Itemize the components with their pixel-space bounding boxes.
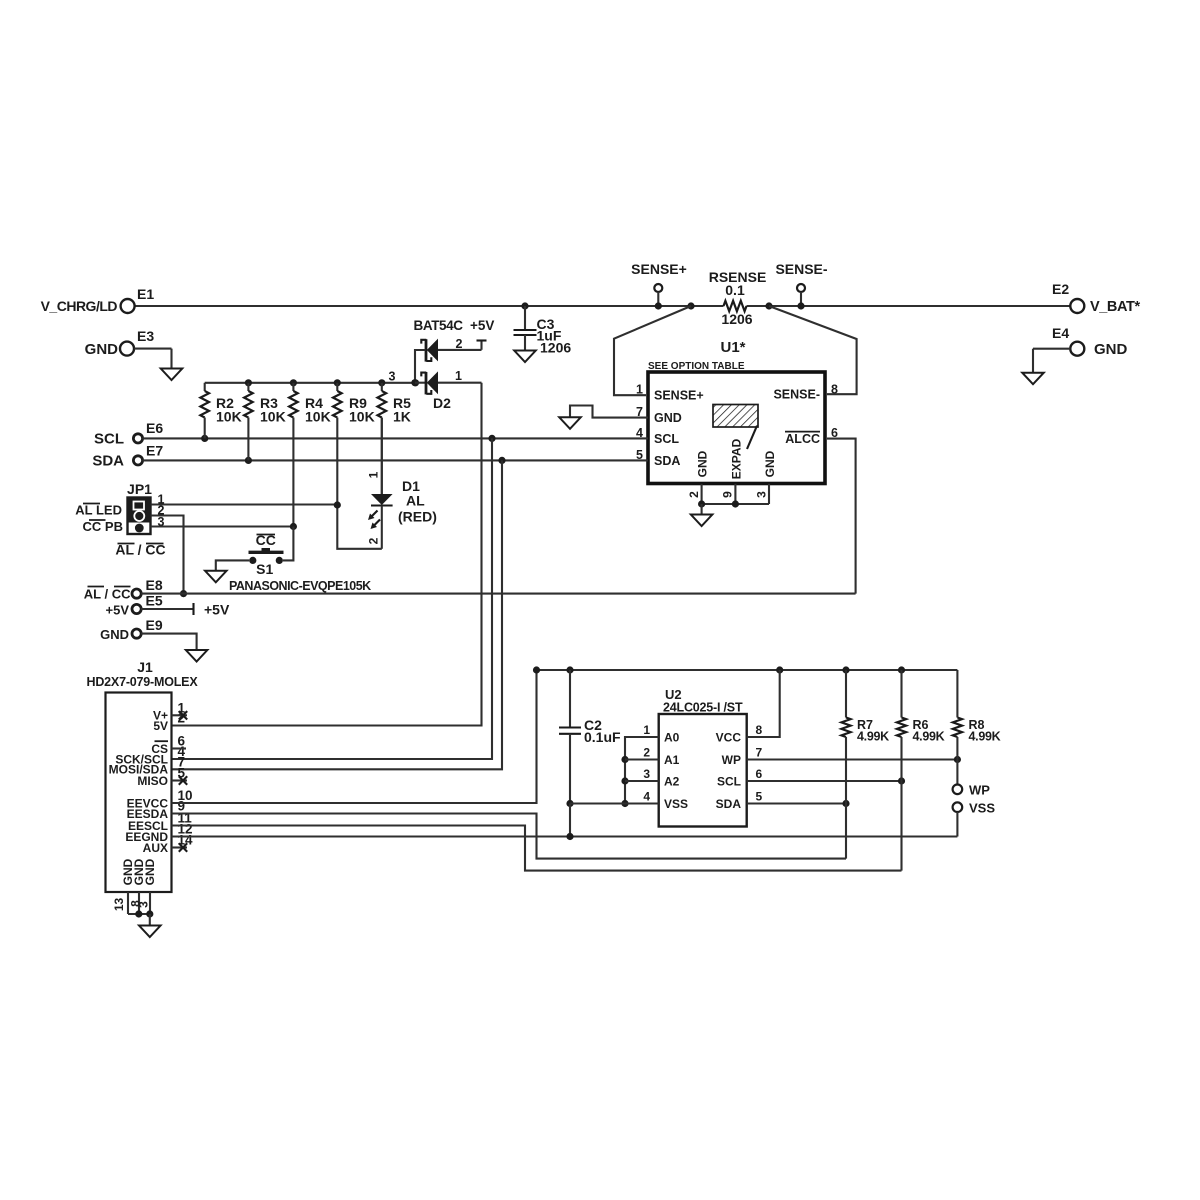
- ground at S1: [205, 571, 227, 583]
- svg-text:JP1: JP1: [127, 481, 152, 497]
- svg-text:MISO: MISO: [137, 774, 168, 788]
- svg-text:V_BAT*: V_BAT*: [1090, 299, 1140, 315]
- svg-text:GND: GND: [85, 341, 119, 358]
- diode D2 lower schottky: [415, 382, 426, 384]
- U1 bottom pins 2 9 3: [701, 484, 703, 504]
- wire J1 EESCL to R6/SCL net: [172, 826, 902, 871]
- wire pullup top rail: [205, 382, 416, 384]
- svg-text:10K: 10K: [216, 408, 242, 424]
- resistor R6 4.99K: [900, 670, 902, 718]
- svg-text:24LC025-I /ST: 24LC025-I /ST: [663, 701, 743, 715]
- wire SCL net: [142, 437, 648, 439]
- resistor R8 4.99K: [956, 670, 958, 718]
- svg-text:E1: E1: [137, 286, 154, 302]
- svg-text:ALCC: ALCC: [785, 432, 820, 446]
- wire U2 address pins tie: [625, 737, 659, 804]
- J1 pin 14 AUX no-connect stub: [172, 846, 188, 848]
- J1 pin 6 CS stub: [172, 747, 187, 749]
- wire AL/CC line to U1 ALCC: [141, 593, 856, 595]
- svg-text:+5V: +5V: [106, 603, 130, 618]
- wire R9 bottom to D1 cathode: [337, 505, 382, 549]
- svg-text:AL: AL: [406, 493, 425, 509]
- svg-text:1206: 1206: [540, 340, 571, 356]
- svg-text:1: 1: [455, 369, 462, 383]
- svg-text:SCL: SCL: [654, 432, 679, 446]
- connector J1 box: [106, 693, 172, 893]
- wire J1 EEGND to VSS net: [172, 835, 958, 837]
- svg-text:A2: A2: [664, 775, 680, 789]
- ground at E9: [186, 650, 208, 662]
- svg-text:E8: E8: [146, 577, 163, 593]
- svg-text:E5: E5: [146, 593, 163, 609]
- svg-text:E3: E3: [137, 328, 154, 344]
- LED D1 AL RED: [381, 418, 383, 495]
- svg-text:13: 13: [112, 898, 126, 912]
- svg-text:AL / CC: AL / CC: [84, 587, 131, 602]
- wire JP1 pin3 to R4/S1 net: [151, 525, 294, 527]
- wire JP1 pin1 to R9/D1 net: [151, 503, 338, 505]
- svg-text:D2: D2: [433, 395, 451, 411]
- svg-text:4: 4: [643, 790, 650, 804]
- svg-text:S1: S1: [256, 561, 273, 577]
- LED D1 emission arrows: [370, 511, 378, 519]
- svg-text:SDA: SDA: [654, 454, 680, 468]
- resistor R7 4.99K: [845, 670, 847, 718]
- svg-text:WP: WP: [969, 783, 990, 798]
- svg-text:SCL: SCL: [94, 430, 124, 447]
- svg-text:10K: 10K: [260, 408, 286, 424]
- capacitor C2 0.1uF: [569, 670, 571, 728]
- ground at E4: [1022, 373, 1044, 385]
- J1 pin 1 V+ no-connect stub: [172, 714, 188, 716]
- svg-text:1206: 1206: [721, 311, 752, 327]
- svg-text:2: 2: [687, 491, 701, 498]
- svg-text:4.99K: 4.99K: [857, 730, 889, 744]
- svg-text:8: 8: [756, 723, 763, 737]
- svg-text:U1*: U1*: [720, 339, 745, 356]
- svg-text:1: 1: [636, 383, 643, 397]
- svg-text:BAT54C: BAT54C: [414, 318, 464, 333]
- eeprom U2 box: [659, 714, 747, 827]
- svg-text:VSS: VSS: [969, 801, 995, 816]
- capacitor C3: [521, 302, 528, 309]
- svg-text:E6: E6: [146, 420, 163, 436]
- ground at J1: [139, 926, 161, 938]
- svg-text:4.99K: 4.99K: [969, 730, 1001, 744]
- svg-text:+5V: +5V: [204, 602, 230, 618]
- svg-text:WP: WP: [722, 753, 741, 767]
- svg-text:10K: 10K: [349, 408, 375, 424]
- svg-text:0.1: 0.1: [725, 282, 745, 298]
- wire R4 to S1 right pad: [283, 527, 294, 561]
- svg-text:SCL: SCL: [717, 775, 741, 789]
- svg-text:4.99K: 4.99K: [913, 730, 945, 744]
- svg-text:9: 9: [721, 491, 735, 498]
- wire J1 EESDA to R7/SDA net: [172, 814, 847, 859]
- svg-text:GND: GND: [654, 411, 682, 425]
- svg-text:E7: E7: [146, 442, 163, 458]
- wire U2 WP pin 7 to R8: [747, 758, 958, 760]
- svg-text:6: 6: [756, 767, 763, 781]
- wire SCL to J1 pin 4: [172, 438, 493, 759]
- svg-text:GND: GND: [696, 450, 710, 477]
- terminal E2 V_BAT*: [1070, 299, 1084, 313]
- resistor R3 10K: [247, 383, 249, 391]
- svg-text:(RED): (RED): [398, 509, 437, 525]
- wire SDA net: [142, 459, 648, 461]
- resistor R4 10K: [292, 383, 294, 391]
- wire SDA to J1 pin 7: [172, 460, 503, 769]
- wire JP1 pin2 to AL/CC line: [151, 516, 184, 594]
- svg-text:3: 3: [643, 767, 650, 781]
- svg-text:8: 8: [831, 383, 838, 397]
- J1 bottom GND pins 13 8 3: [127, 892, 129, 914]
- svg-text:A0: A0: [664, 731, 680, 745]
- svg-text:E9: E9: [146, 617, 163, 633]
- J1 pin 5 MISO no-connect stub: [172, 779, 188, 781]
- svg-text:VCC: VCC: [716, 731, 742, 745]
- svg-text:GND: GND: [763, 450, 777, 477]
- wire 5V net D2 to J1 pin 2: [172, 383, 482, 726]
- resistor R2 10K: [204, 383, 206, 391]
- svg-text:V_CHRG/LD: V_CHRG/LD: [41, 298, 118, 314]
- svg-text:SENSE-: SENSE-: [775, 261, 827, 277]
- svg-text:E2: E2: [1052, 281, 1069, 297]
- svg-text:3: 3: [389, 370, 396, 384]
- svg-text:2: 2: [643, 746, 650, 760]
- ground at E3: [161, 369, 183, 381]
- power +5V tick at E5: [192, 603, 194, 615]
- resistor R9 10K: [336, 383, 338, 391]
- svg-text:SENSE-: SENSE-: [773, 388, 820, 402]
- svg-text:EXPAD: EXPAD: [729, 438, 743, 479]
- ground at C3: [514, 351, 536, 363]
- svg-text:2: 2: [367, 537, 381, 544]
- svg-text:HD2X7-079-MOLEX: HD2X7-079-MOLEX: [87, 675, 199, 689]
- svg-text:GND: GND: [1094, 341, 1128, 358]
- wire RSENSE right to U1 pin 8: [769, 306, 857, 394]
- svg-text:A1: A1: [664, 753, 680, 767]
- ground at U1 pin 2: [701, 504, 703, 515]
- svg-text:1: 1: [367, 471, 381, 478]
- wire +5V rail lower: [537, 669, 958, 671]
- wire U1 pin 7 GND: [570, 406, 648, 418]
- svg-text:VSS: VSS: [664, 797, 688, 811]
- wire RSENSE left to U1 pin 1: [614, 306, 691, 395]
- svg-text:+5V: +5V: [470, 318, 494, 333]
- svg-text:GND: GND: [143, 858, 157, 885]
- svg-text:1K: 1K: [393, 408, 411, 424]
- svg-text:3: 3: [755, 491, 769, 498]
- svg-text:AUX: AUX: [143, 841, 168, 855]
- svg-text:3: 3: [137, 901, 151, 908]
- svg-text:5V: 5V: [153, 719, 168, 733]
- svg-text:0.1uF: 0.1uF: [584, 729, 621, 745]
- resistor R5 1K: [381, 383, 383, 391]
- resistor RSENSE 0.1 1206: [687, 302, 694, 309]
- svg-text:1: 1: [643, 723, 650, 737]
- svg-text:SDA: SDA: [716, 797, 742, 811]
- svg-text:SENSE+: SENSE+: [654, 389, 704, 403]
- svg-text:5: 5: [756, 790, 763, 804]
- wire S1 left pad to ground: [216, 560, 249, 570]
- svg-text:CC PB: CC PB: [83, 519, 123, 534]
- wire V_CHRG/LD to V_BAT main rail: [135, 305, 724, 307]
- power +5V tick at D2 pin 2: [480, 341, 482, 350]
- terminal VSS: [953, 802, 963, 812]
- wire J1 EEVCC to +5V rail: [172, 670, 537, 803]
- svg-text:PANASONIC-EVQPE105K: PANASONIC-EVQPE105K: [229, 579, 371, 593]
- svg-text:J1: J1: [137, 659, 153, 675]
- ground at U1 pin 7: [559, 417, 581, 429]
- svg-text:SENSE+: SENSE+: [631, 261, 687, 277]
- svg-text:SDA: SDA: [92, 452, 124, 469]
- wire U2 VCC pin 8 to rail: [747, 670, 780, 737]
- svg-text:10K: 10K: [305, 408, 331, 424]
- svg-text:GND: GND: [100, 627, 129, 642]
- wire U2 SCL pin 6 to R6: [747, 780, 902, 782]
- wire U2 SDA pin 5 to R7: [747, 802, 846, 804]
- svg-text:2: 2: [456, 337, 463, 351]
- wire U1 pin 6 ALCC to AL/CC line: [827, 439, 856, 594]
- svg-text:7: 7: [756, 746, 763, 760]
- terminal WP: [956, 760, 958, 785]
- diode D2 upper schottky: [425, 339, 428, 361]
- wire U2 VSS line: [570, 802, 659, 804]
- terminal E4 GND: [1070, 342, 1084, 356]
- EXPAD hatched pad: [713, 405, 758, 428]
- svg-text:E4: E4: [1052, 325, 1069, 341]
- svg-text:AL LED: AL LED: [75, 503, 122, 518]
